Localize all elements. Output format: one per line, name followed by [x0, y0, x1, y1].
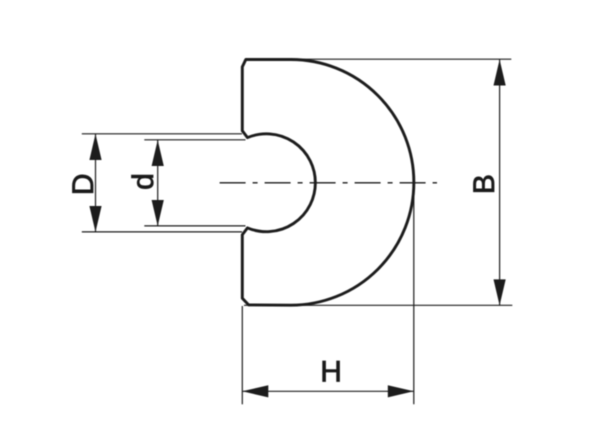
svg-text:d: d — [127, 173, 160, 190]
svg-text:H: H — [320, 356, 342, 389]
extension line d top — [144, 139, 245, 141]
arrowhead H left — [242, 385, 268, 397]
dimension line D — [95, 134, 97, 232]
arrowhead B down — [494, 279, 506, 305]
dimension line H — [242, 390, 413, 392]
svg-text:D: D — [67, 173, 100, 195]
extension line B bottom — [244, 304, 512, 306]
extension line D top — [82, 133, 242, 135]
arrowhead D up — [89, 134, 101, 160]
extension line d bottom — [144, 225, 245, 227]
arrowhead B up — [494, 60, 506, 86]
extension line B top — [292, 58, 511, 60]
arrowhead D down — [89, 206, 101, 232]
centerline (dash-dot) — [220, 182, 437, 184]
extension line D bottom — [82, 231, 242, 233]
arrowhead d down — [152, 200, 164, 226]
extension line H left — [241, 306, 243, 404]
dimension line d — [157, 140, 159, 226]
part outline: D-shaped body with chamfered left edge and semicircular notch — [242, 60, 414, 306]
arrowhead H right — [388, 385, 414, 397]
dimension line B — [499, 60, 501, 306]
extension line H right — [413, 187, 415, 404]
svg-text:B: B — [468, 174, 501, 194]
arrowhead d up — [152, 140, 164, 166]
